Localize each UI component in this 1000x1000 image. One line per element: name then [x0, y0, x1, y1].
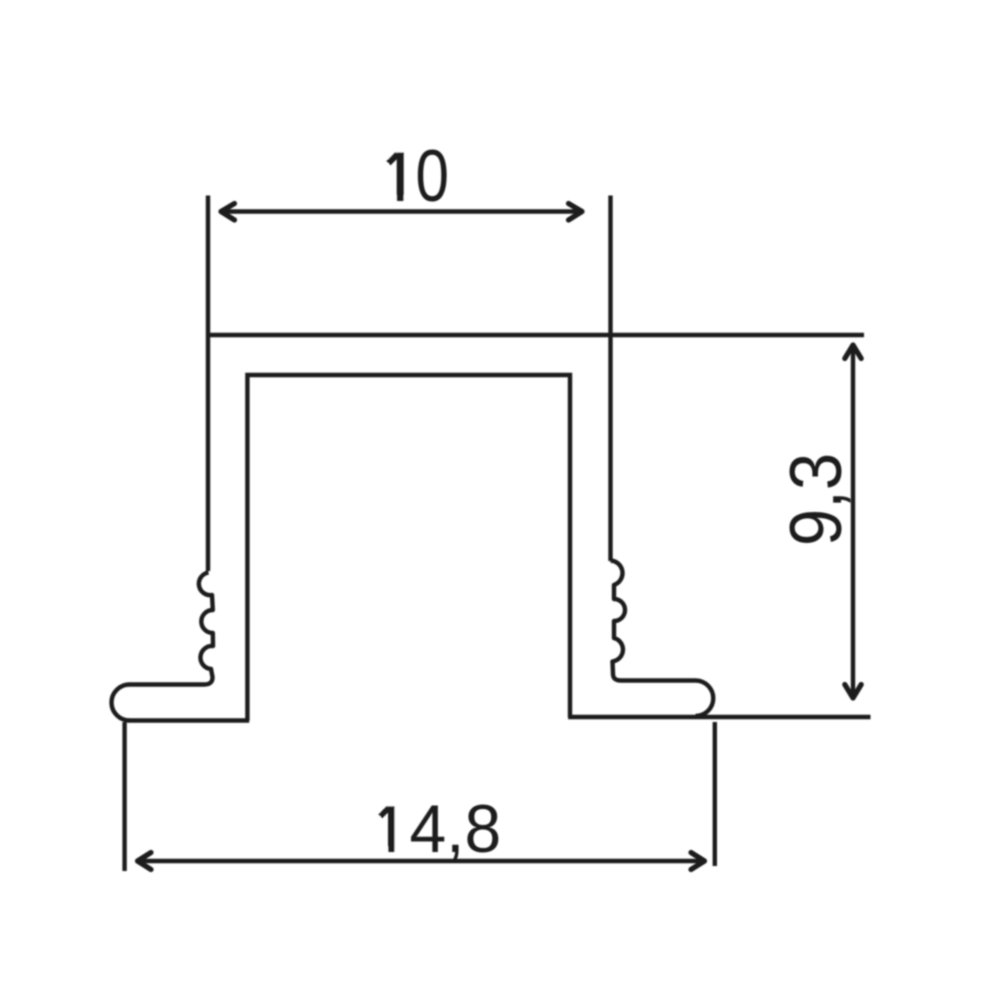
- dimension 9,3 top arrowhead: [845, 345, 861, 359]
- profile right serrated wall and right foot flange: [611, 561, 714, 717]
- dimension 9,3 line: [851, 345, 855, 698]
- svg-text:10: 10: [382, 136, 449, 218]
- profile inner contour (left wall, inner top, right wall): [247, 375, 570, 721]
- profile left outer wall / dim-10 left extension line: [206, 196, 210, 572]
- profile top edge: [206, 333, 864, 337]
- dimension 9,3 bottom arrowhead: [845, 685, 861, 699]
- profile right outer wall / dim-10 right extension line: [608, 196, 612, 562]
- dimension 10 right arrowhead: [569, 204, 583, 221]
- dimension 14,8 left arrowhead: [138, 853, 152, 870]
- dimension 14,8 left extension line: [122, 722, 126, 871]
- dimension 14,8 line: [138, 859, 705, 863]
- profile left serrated wall and left foot flange: [112, 573, 214, 721]
- profile bottom edge, left foot: [128, 718, 249, 722]
- dimension 14,8 right extension line: [713, 722, 717, 866]
- profile bottom edge, right side / dim-9,3 bottom extension line: [568, 715, 871, 719]
- dimension 14,8 right arrowhead: [691, 853, 705, 870]
- dimension 10 line: [221, 209, 582, 213]
- dimension 10 left arrowhead: [221, 204, 235, 221]
- svg-text:9,3: 9,3: [775, 453, 856, 546]
